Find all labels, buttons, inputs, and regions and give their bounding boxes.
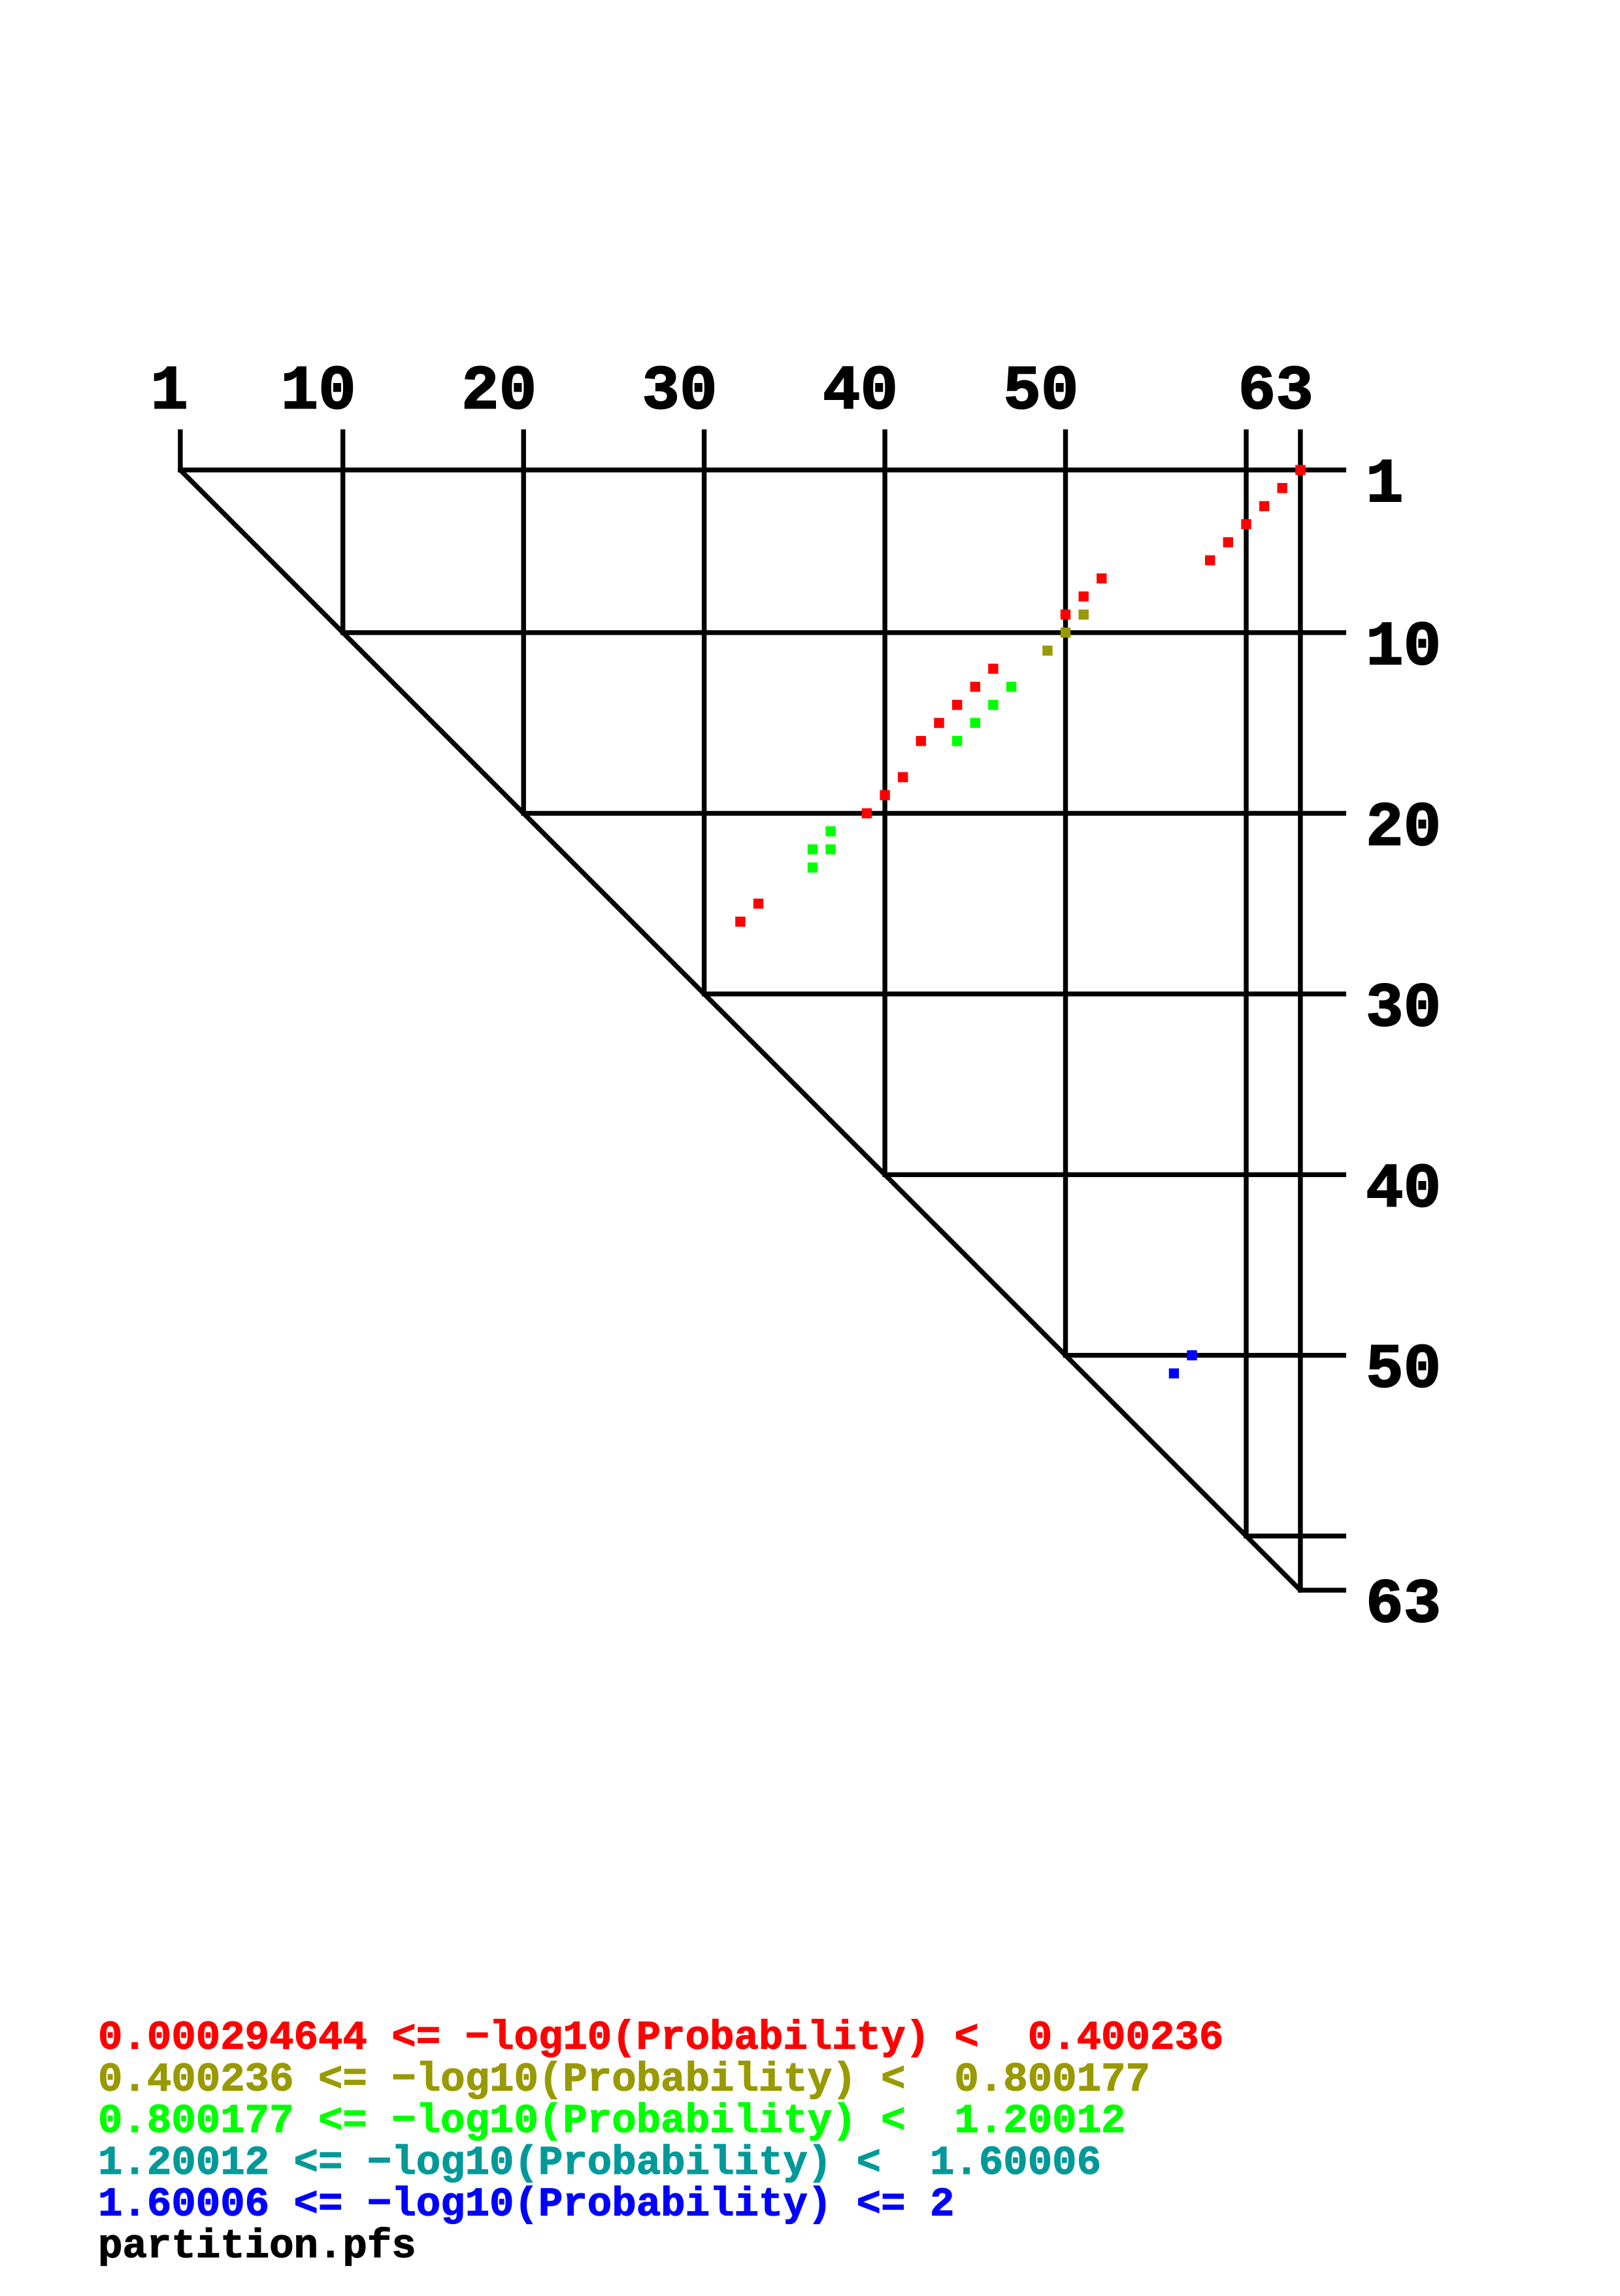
dot blue (57,50): [1187, 1350, 1197, 1360]
dot red (63,1): [1295, 465, 1305, 474]
svg-text:0.000294644 <= −log10(Probabil: 0.000294644 <= −log10(Probability) < 0.4…: [98, 2015, 1223, 2061]
grid line column 10: [340, 429, 345, 635]
svg-text:63: 63: [1366, 1569, 1441, 1640]
grid line column 63: [1298, 429, 1302, 1593]
grid line row 20: [521, 811, 1347, 816]
dot red (41,18): [898, 772, 908, 782]
grid line row 1: [178, 467, 1346, 472]
grid line row 50: [1063, 1353, 1346, 1357]
dot red (61,3): [1259, 501, 1269, 511]
dot green (45,15): [970, 718, 980, 727]
dot red (59,5): [1223, 537, 1233, 547]
svg-text:20: 20: [1366, 792, 1441, 863]
grid line row 60: [1244, 1533, 1346, 1538]
dot red (44,14): [952, 700, 962, 710]
tick column 1: [178, 429, 182, 473]
dot green (44,16): [952, 736, 962, 746]
svg-text:1.60006 <= −log10(Probability): 1.60006 <= −log10(Probability) <= 2: [98, 2182, 954, 2228]
dot red (58,6): [1205, 556, 1215, 565]
dot red (45,13): [970, 682, 980, 691]
grid line row 40: [882, 1173, 1346, 1177]
dot red (40,19): [880, 790, 889, 800]
svg-text:partition.pfs: partition.pfs: [98, 2223, 416, 2269]
dot green (37,22): [825, 844, 835, 854]
svg-text:10: 10: [1366, 612, 1441, 683]
svg-text:1: 1: [1366, 449, 1404, 520]
dot red (52,7): [1097, 573, 1106, 583]
grid line column 20: [521, 429, 526, 816]
grid line row 63: [1298, 1588, 1346, 1592]
dot green (37,21): [825, 826, 835, 836]
dot blue (56,51): [1169, 1369, 1179, 1378]
dot red (51,8): [1079, 591, 1089, 601]
svg-text:50: 50: [1003, 356, 1078, 427]
dot red (43,15): [934, 718, 944, 727]
dot green (36,22): [808, 844, 818, 854]
dot green (36,23): [808, 863, 818, 873]
dot green (46,14): [988, 700, 998, 710]
dot red (62,2): [1278, 483, 1287, 493]
svg-text:30: 30: [642, 356, 717, 427]
diagonal border: [180, 470, 1300, 1590]
dot red (33,25): [753, 899, 763, 908]
dot green (47,13): [1006, 682, 1016, 691]
svg-text:0.400236 <= −log10(Probability: 0.400236 <= −log10(Probability) < 0.8001…: [98, 2056, 1150, 2103]
svg-text:10: 10: [280, 356, 355, 427]
dot red (50,9): [1061, 610, 1070, 620]
svg-text:1.20012 <= −log10(Probability): 1.20012 <= −log10(Probability) < 1.60006: [98, 2140, 1101, 2186]
dot olive (51,9): [1079, 610, 1089, 620]
dot red (46,12): [988, 664, 998, 674]
dot red (42,16): [916, 736, 926, 746]
svg-text:1: 1: [150, 356, 188, 427]
dot olive (50,10): [1061, 627, 1070, 637]
grid line row 30: [702, 991, 1346, 996]
grid line column 60: [1244, 429, 1248, 1539]
dot red (60,4): [1241, 519, 1251, 529]
svg-text:40: 40: [1366, 1154, 1441, 1225]
svg-text:50: 50: [1366, 1335, 1441, 1406]
grid line column 40: [882, 429, 887, 1177]
grid line column 30: [702, 429, 706, 997]
grid line row 10: [340, 630, 1346, 635]
dot red (39,20): [862, 808, 872, 818]
svg-text:40: 40: [823, 356, 898, 427]
svg-text:30: 30: [1366, 973, 1441, 1044]
dot red (32,26): [735, 917, 745, 927]
dot olive (49,11): [1042, 646, 1052, 656]
svg-text:63: 63: [1238, 356, 1314, 427]
svg-text:0.800177 <= −log10(Probability: 0.800177 <= −log10(Probability) < 1.2001…: [98, 2098, 1126, 2144]
svg-text:20: 20: [461, 356, 537, 427]
grid line column 50: [1063, 429, 1068, 1357]
